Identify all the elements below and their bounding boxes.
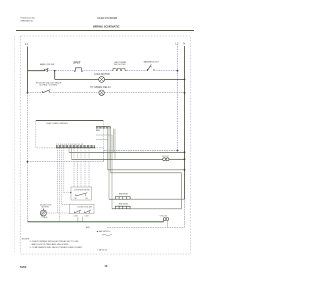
connector P1 bottom pins bbox=[56, 144, 96, 148]
wiring schematic title bbox=[93, 25, 120, 29]
svg-text:AND DOOR CLOSED AND UNLOCKED.: AND DOOR CLOSED AND UNLOCKED. bbox=[32, 243, 70, 246]
wire box2 drop 1 bbox=[77, 217, 79, 222]
svg-text:* OV LGT: * OV LGT bbox=[159, 216, 168, 218]
footer page number bbox=[104, 264, 107, 268]
wire row C left bbox=[28, 92, 43, 94]
wire bundle right v5 bbox=[73, 148, 75, 187]
wire row A left bbox=[28, 70, 45, 72]
wire bundle left v2 bbox=[59, 148, 61, 222]
svg-text:BKE ELMT: BKE ELMT bbox=[119, 194, 129, 196]
wire mid row lower with lamp switch bbox=[72, 148, 186, 161]
svg-text:16: 16 bbox=[104, 264, 107, 268]
motor door lock M3 bbox=[40, 205, 52, 219]
svg-text:N: N bbox=[183, 41, 185, 45]
svg-text:LOCK MOTOR: LOCK MOTOR bbox=[94, 74, 110, 76]
header underline bbox=[16, 30, 194, 32]
wire mid dashed to L2 bbox=[104, 150, 178, 152]
bake element E1 bbox=[109, 194, 185, 200]
svg-text:LOCK MOTOR SW: LOCK MOTOR SW bbox=[74, 189, 90, 191]
svg-text:1 2 3 4 5 6 7 8 9 10 11 12: 1 2 3 4 5 6 7 8 9 10 11 12 bbox=[56, 144, 83, 146]
wire lamp to N dashed bbox=[107, 226, 185, 228]
node N bbox=[183, 41, 185, 227]
wire row A to L2 bbox=[154, 70, 178, 72]
wire row A dashed to SPST bbox=[48, 70, 76, 72]
wire label BRN bbox=[86, 227, 90, 229]
motor lock M1 bbox=[94, 74, 110, 82]
wire loop top A bbox=[108, 169, 186, 171]
wire row C middle bbox=[50, 92, 99, 94]
wire bundle left v1 bbox=[57, 148, 59, 213]
svg-text:CFEF372MWB: CFEF372MWB bbox=[97, 16, 117, 20]
node L1 bbox=[25, 42, 28, 222]
svg-text:DOOR LOCK SW: DOOR LOCK SW bbox=[78, 207, 92, 209]
wire bundle left v3 bbox=[62, 148, 70, 205]
wire row A dashed to thermostat bbox=[81, 70, 112, 72]
svg-text:MOTOR: MOTOR bbox=[42, 207, 50, 209]
EOC control board U1 bbox=[36, 121, 104, 148]
broil element E2 bbox=[112, 204, 182, 209]
switch box door lock S5 bbox=[70, 204, 95, 217]
drawing number text bbox=[97, 248, 107, 251]
motor speed relay M2 bbox=[90, 86, 111, 95]
svg-text:BRL ELMT: BRL ELMT bbox=[119, 204, 129, 206]
switch box lock motor S4 bbox=[71, 187, 92, 200]
switch SPST S2 bbox=[73, 60, 82, 72]
svg-text:CLOSED / LOCKED: CLOSED / LOCKED bbox=[39, 84, 58, 86]
svg-text:ELEC OVEN CONTROL: ELEC OVEN CONTROL bbox=[47, 123, 70, 125]
wire bundle left v4 bbox=[64, 148, 72, 194]
svg-text:1. CHECK WIRING WITH ELECTRICA: 1. CHECK WIRING WITH ELECTRICAL SET TO O… bbox=[30, 240, 80, 243]
svg-text:NOTES:: NOTES: bbox=[22, 238, 30, 240]
svg-text:OV LGT: OV LGT bbox=[162, 156, 169, 158]
svg-text:TO SPEED RELAY: TO SPEED RELAY bbox=[90, 86, 111, 89]
wire bundle right v9 bbox=[88, 148, 90, 187]
svg-text:SPST: SPST bbox=[73, 60, 80, 64]
wire bundle right v7 bbox=[80, 148, 82, 187]
wire bundle right v6 bbox=[77, 148, 79, 187]
svg-text:2. COMPONENTS WILL BE HOT WHEN: 2. COMPONENTS WILL BE HOT WHEN OVEN IS U… bbox=[30, 247, 83, 249]
wire branch to row B bbox=[54, 70, 56, 80]
wire bundle v-topB bbox=[110, 129, 112, 173]
thermostat oven limit bbox=[112, 62, 126, 70]
wire row A dashed to relay bbox=[127, 70, 148, 72]
wire bundle v-row1 bbox=[113, 129, 115, 153]
svg-text:70/02: 70/02 bbox=[20, 265, 27, 269]
svg-text:WIRING SCHEMATIC: WIRING SCHEMATIC bbox=[93, 25, 120, 29]
svg-text:BAKE OFF SW.: BAKE OFF SW. bbox=[40, 63, 55, 66]
svg-text:# 14701 11: # 14701 11 bbox=[97, 248, 107, 251]
wire bundle v-elem2 bbox=[111, 135, 113, 209]
wire row C to N bbox=[104, 92, 185, 94]
switch door unlock S3 bbox=[36, 82, 62, 92]
model number text bbox=[97, 16, 117, 20]
wire bundle v-elem1 bbox=[108, 129, 110, 200]
junction row A at L2 bbox=[177, 70, 179, 72]
revision note text bbox=[97, 230, 113, 236]
lamp oven light DS1 bbox=[159, 216, 169, 228]
node L2 bbox=[175, 41, 178, 150]
wire L1 bottom run bbox=[28, 221, 164, 223]
svg-text:5995580745: 5995580745 bbox=[21, 20, 34, 22]
junction row C at L1 bbox=[27, 92, 29, 94]
wire bundle v-topA bbox=[107, 129, 109, 170]
notes block bbox=[22, 238, 83, 248]
switch bake-off S1 bbox=[40, 63, 55, 72]
relay bake-broil contact bbox=[144, 61, 160, 71]
connector P2 right pins bbox=[96, 127, 112, 140]
svg-text:◆ SEE NOTE 2: ◆ SEE NOTE 2 bbox=[97, 230, 112, 233]
wire dashed from L1 junction bbox=[27, 148, 104, 163]
svg-text:BAKE/BROIL RLY: BAKE/BROIL RLY bbox=[144, 61, 160, 64]
svg-text:TO BLK: TO BLK bbox=[41, 217, 48, 219]
wire bundle v-row2 bbox=[114, 129, 116, 160]
svg-text:Publication No.: Publication No. bbox=[21, 17, 36, 20]
wire row B to N bbox=[105, 79, 186, 81]
wire row B bbox=[55, 78, 99, 80]
wire mid row upper bbox=[69, 148, 185, 153]
wire loop top B bbox=[111, 173, 182, 209]
wire motor to door box bbox=[46, 212, 69, 214]
wire bundle right v8 bbox=[84, 148, 86, 187]
svg-text:150C N.CLSD: 150C N.CLSD bbox=[114, 64, 127, 66]
footer page code bbox=[20, 265, 27, 269]
publication number text bbox=[21, 17, 36, 23]
wire box2 drop 2 bbox=[82, 217, 84, 222]
